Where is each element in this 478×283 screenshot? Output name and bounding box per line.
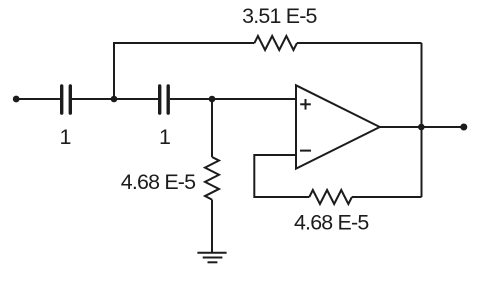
svg-text:1: 1: [59, 125, 70, 149]
svg-text:1: 1: [159, 125, 170, 149]
svg-text:3.51 E-5: 3.51 E-5: [242, 4, 316, 28]
svg-text:4.68 E-5: 4.68 E-5: [121, 170, 195, 194]
svg-text:4.68 E-5: 4.68 E-5: [294, 211, 368, 235]
